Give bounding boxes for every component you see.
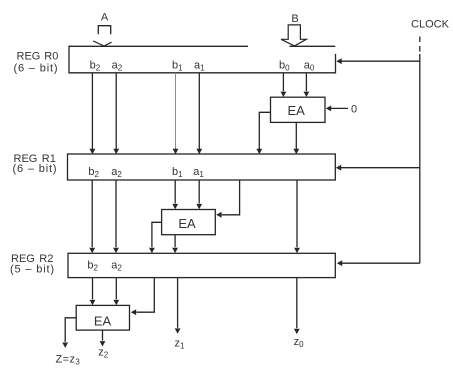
chevron arrow into REG R0 for A — [93, 41, 111, 46]
svg-text:(5 – bit): (5 – bit) — [10, 263, 55, 275]
svg-text:a2: a2 — [111, 259, 122, 272]
svg-text:REG: REG — [17, 50, 41, 62]
pin label b1 in R0 — [172, 59, 183, 72]
wire b2 from R1 to R2 — [91, 180, 93, 247]
svg-text:EA: EA — [288, 103, 306, 118]
wire a2 from R1 to R2 — [115, 180, 117, 247]
register R1 box — [68, 154, 336, 180]
label REG R1 — [13, 153, 58, 175]
EA U1 (full adder) box — [271, 97, 326, 122]
svg-text:z1: z1 — [175, 337, 186, 350]
label REG R0 — [14, 50, 59, 74]
pin label b2 in R2 — [87, 259, 98, 272]
wire output z1 from R2 — [177, 278, 179, 328]
svg-text:a2: a2 — [112, 59, 123, 72]
label REG R2 — [10, 253, 55, 275]
EA U2 (full adder) box — [162, 210, 216, 235]
register R0 box — [69, 46, 336, 73]
wire stored carry from R1 to EA U2 carry in — [222, 180, 240, 215]
svg-text:a1: a1 — [193, 166, 204, 179]
svg-text:CLOCK: CLOCK — [411, 19, 450, 31]
wire b0 from R0 to EA U1 — [282, 73, 284, 91]
svg-text:a2: a2 — [111, 166, 122, 179]
pin label a0 in R0 — [304, 59, 315, 72]
pin label b2 in R0 — [90, 59, 101, 72]
svg-text:0: 0 — [351, 104, 357, 116]
pin label a2 in R1 — [111, 166, 122, 179]
wire EA U2 carry out to R2 — [152, 222, 162, 247]
svg-text:b1: b1 — [172, 166, 183, 179]
svg-text:b2: b2 — [90, 59, 101, 72]
wire EA U1 sum out to R1 — [295, 122, 297, 150]
node z0 label — [294, 336, 305, 349]
svg-text:b0: b0 — [279, 59, 290, 72]
wire CLOCK to REG R1 — [341, 167, 420, 169]
wire a2 from R0 to R1 — [115, 73, 117, 150]
wire constant 0 into EA U1 — [331, 107, 348, 109]
pin label a2 in R0 — [112, 59, 123, 72]
svg-text:(6 – bit): (6 – bit) — [13, 163, 58, 175]
wire a1 from R0 to R1 — [198, 73, 200, 150]
svg-text:Z=z3: Z=z3 — [56, 354, 81, 367]
wire stored carry from R2 to EA U3 carry in — [136, 278, 154, 313]
svg-text:z0: z0 — [294, 336, 305, 349]
svg-text:B: B — [291, 13, 298, 25]
node B (bus label) — [291, 13, 298, 25]
bracket symbol for A bus — [98, 26, 110, 35]
pin label b0 in R0 — [279, 59, 290, 72]
node Z=z3 label — [56, 354, 81, 367]
svg-text:a0: a0 — [304, 59, 315, 72]
svg-text:b1: b1 — [172, 59, 183, 72]
node z2 label — [98, 347, 109, 360]
wire b1 from R1 to EA U2 — [174, 180, 176, 203]
EA U3 (full adder) box — [76, 305, 129, 330]
svg-text:b2: b2 — [88, 166, 99, 179]
wire b2 from R0 to R1 — [91, 73, 93, 150]
wire a2 from R2 to EA U3 — [115, 278, 117, 300]
wire EA U2 sum out to R2 — [174, 235, 176, 248]
pin label a2 in R2 — [111, 259, 122, 272]
svg-text:z2: z2 — [98, 347, 109, 360]
svg-text:b2: b2 — [87, 259, 98, 272]
svg-text:(6 – bit): (6 – bit) — [14, 63, 59, 75]
wire EA U3 carry out to Z=z3 — [65, 318, 76, 342]
pin label b2 in R1 — [88, 166, 99, 179]
block arrow into REG R0 for B — [281, 25, 306, 46]
svg-text:A: A — [101, 12, 109, 24]
svg-text:a1: a1 — [194, 59, 205, 72]
wire EA U3 sum out z2 — [102, 330, 104, 341]
pin label b1 in R1 — [172, 166, 183, 179]
svg-text:EA: EA — [94, 313, 112, 328]
wire CLOCK to REG R2 — [342, 262, 420, 264]
node CLOCK label — [411, 19, 450, 31]
wire CLOCK dashed lead — [419, 37, 421, 53]
register R2 box — [68, 253, 335, 277]
node constant 0 label — [351, 104, 357, 116]
wire output z0 from R2 — [296, 278, 298, 329]
node z1 label — [175, 337, 186, 350]
node A (bus label) — [101, 12, 109, 24]
wire a1 from R1 to EA U2 — [198, 180, 200, 203]
pin label a1 in R0 — [194, 59, 205, 72]
wire a0 from R0 to EA U1 — [305, 73, 307, 91]
wire b1 from R0 to R1 (faint) — [175, 73, 177, 150]
wire EA U1 carry out to R1 — [259, 112, 270, 150]
wire CLOCK vertical rail — [419, 54, 421, 263]
wire b2 from R2 to EA U3 — [92, 278, 94, 300]
svg-text:R0: R0 — [44, 50, 58, 62]
svg-text:EA: EA — [178, 216, 196, 231]
pin label a1 in R1 — [193, 166, 204, 179]
wire stored sum from R1 to R2 — [296, 180, 298, 247]
wire CLOCK to REG R0 — [342, 60, 420, 62]
